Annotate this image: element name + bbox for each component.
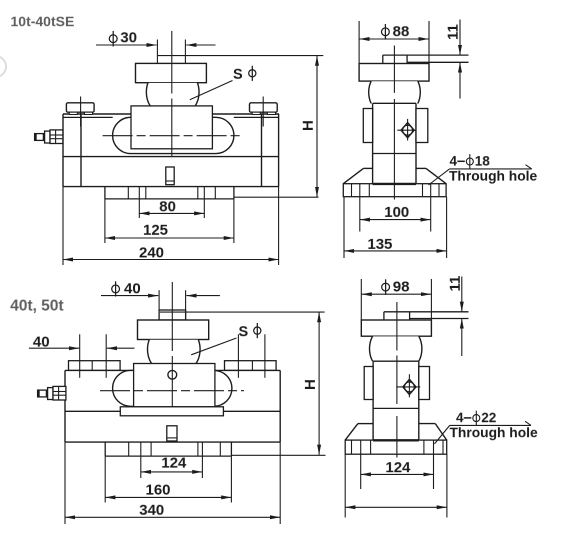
svg-text:340: 340 — [139, 502, 164, 519]
svg-text:Through hole: Through hole — [449, 169, 537, 184]
svg-text:80: 80 — [159, 198, 176, 215]
svg-text:10t-40tSE: 10t-40tSE — [10, 13, 74, 29]
svg-text:4: 4 — [449, 154, 457, 169]
svg-text:Through hole: Through hole — [449, 425, 537, 440]
svg-text:88: 88 — [393, 23, 410, 40]
svg-text:40: 40 — [124, 280, 141, 297]
svg-text:124: 124 — [161, 455, 187, 472]
svg-text:124: 124 — [385, 459, 411, 476]
svg-text:18: 18 — [475, 154, 491, 169]
svg-text:22: 22 — [481, 410, 496, 425]
svg-text:135: 135 — [367, 236, 392, 253]
svg-text:11: 11 — [447, 276, 464, 292]
svg-text:98: 98 — [393, 279, 410, 296]
svg-text:11: 11 — [445, 24, 462, 40]
svg-text:H: H — [302, 379, 319, 390]
svg-text:H: H — [300, 120, 317, 131]
svg-text:125: 125 — [143, 222, 168, 239]
svg-text:40t, 50t: 40t, 50t — [10, 298, 63, 315]
svg-text:100: 100 — [384, 204, 409, 221]
svg-text:S: S — [238, 324, 248, 340]
svg-text:30: 30 — [120, 29, 137, 46]
svg-text:S: S — [233, 67, 243, 83]
svg-text:160: 160 — [145, 482, 170, 499]
svg-text:4: 4 — [456, 410, 464, 425]
svg-text:240: 240 — [139, 244, 164, 261]
